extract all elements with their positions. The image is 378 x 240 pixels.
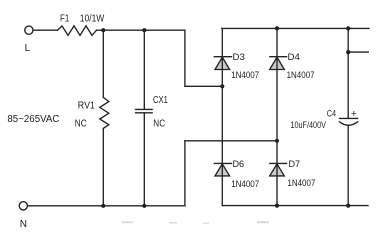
terminal L — [25, 26, 33, 34]
junction D4 top — [275, 26, 279, 30]
wire node B — [185, 140, 277, 142]
diode D4 — [270, 57, 287, 70]
wire L drop — [184, 30, 186, 86]
svg-text:RV1: RV1 — [78, 101, 96, 112]
wire fuse to corner — [97, 29, 185, 31]
svg-text:L: L — [25, 43, 31, 54]
junction D7 bottom — [275, 204, 279, 208]
svg-text:D3: D3 — [233, 51, 245, 62]
wire L to fuse — [33, 29, 57, 31]
svg-text:F1: F1 — [60, 14, 70, 25]
varistor RV1 — [100, 30, 109, 206]
wire N horizontal — [28, 205, 185, 207]
capacitor C4 — [340, 28, 358, 205]
junction node A — [220, 84, 224, 88]
svg-text:1N4007: 1N4007 — [287, 70, 315, 81]
wire output stub — [348, 51, 368, 53]
wire D3-D6 string — [221, 28, 223, 205]
svg-text:1N4007: 1N4007 — [231, 70, 259, 81]
svg-text:N: N — [20, 219, 27, 230]
wire D4-D7 string — [276, 28, 278, 205]
svg-text:10/1W: 10/1W — [80, 14, 105, 25]
svg-text:85~265VAC: 85~265VAC — [7, 114, 59, 125]
svg-text:C4: C4 — [327, 109, 336, 119]
svg-text:NC: NC — [75, 119, 87, 130]
junction RV1 top — [101, 28, 105, 32]
top bus DC+ — [222, 27, 369, 29]
junction node B — [275, 139, 279, 143]
capacitor CX1 — [136, 30, 153, 206]
diode D3 — [214, 57, 231, 70]
svg-text:NC: NC — [153, 119, 165, 130]
svg-text:1N4007: 1N4007 — [287, 178, 315, 189]
wire node A — [185, 85, 222, 87]
svg-text:D6: D6 — [233, 158, 245, 169]
terminal N — [19, 202, 27, 210]
junction output stub — [346, 50, 350, 54]
svg-text:D7: D7 — [289, 158, 301, 169]
junction CX1 bottom — [142, 204, 146, 208]
junction C4 bottom — [346, 204, 350, 208]
svg-text:D4: D4 — [288, 51, 300, 62]
junction C4 top — [346, 26, 350, 30]
junction CX1 top — [142, 28, 146, 32]
diode D7 — [270, 163, 287, 176]
fuse F1 — [58, 26, 97, 36]
svg-text:1N4007: 1N4007 — [231, 179, 259, 190]
faint cropped marks bottom — [122, 221, 269, 224]
svg-text:10uF/400V: 10uF/400V — [290, 120, 326, 131]
svg-text:CX1: CX1 — [153, 95, 168, 106]
diode D6 — [214, 163, 231, 176]
svg-text:+: + — [351, 108, 357, 120]
bottom bus DC- — [222, 205, 368, 207]
junction RV1 bottom — [101, 204, 105, 208]
wire N riser — [184, 141, 186, 206]
